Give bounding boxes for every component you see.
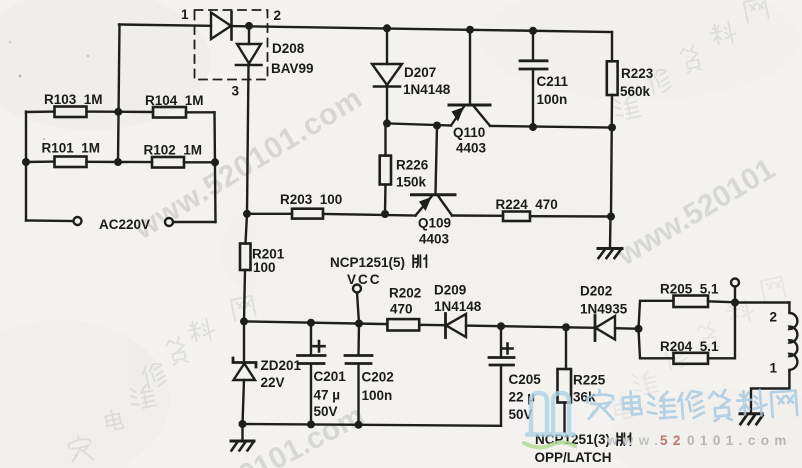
svg-text:1N4148: 1N4148 (403, 82, 451, 97)
svg-text:R104 1M: R104 1M (145, 93, 204, 108)
svg-text:R224 470: R224 470 (496, 197, 558, 212)
capacitor C211 (520, 31, 547, 127)
resistor R202 (387, 319, 419, 330)
svg-text:R204 5.1: R204 5.1 (660, 339, 719, 354)
watermark text 家电维修资料网 (blue brush) (587, 389, 798, 421)
svg-text:D209: D209 (434, 283, 466, 298)
wm F 维修资料网 faint bottom-right (613, 277, 785, 420)
resistor R204 (674, 353, 709, 364)
svg-text:100n: 100n (537, 92, 568, 107)
resistor R102 (152, 157, 184, 168)
svg-text:BAV99: BAV99 (271, 61, 314, 76)
wire R204 right up to output node (708, 303, 735, 359)
resistor R226 (380, 123, 391, 214)
node junction ground rail left (239, 420, 247, 428)
transistor Q109 (PNP 4403) (412, 126, 456, 216)
wire D207 cathode down (386, 87, 388, 124)
svg-text:R202: R202 (389, 286, 421, 301)
wire top rail left segment (119, 25, 211, 26)
capacitor C201 47u electrolytic (298, 323, 326, 425)
svg-text:VCC: VCC (347, 272, 382, 287)
node junction R101 left / left vertical (22, 158, 30, 166)
wire row2 mid (87, 161, 153, 164)
ground (bottom right) (740, 414, 763, 424)
resistor R225 (558, 327, 572, 432)
node junction R102 right (211, 158, 219, 166)
node junction R223/Q110 row (608, 124, 616, 132)
terminal AC220V right (165, 218, 173, 226)
svg-text:50V: 50V (314, 404, 338, 419)
svg-text:150k: 150k (396, 175, 427, 190)
node junction D208 common (pin2 wire) (245, 22, 253, 30)
node junction R203 left (243, 210, 251, 218)
node junction R226 bottom (381, 210, 389, 218)
svg-text:560k: 560k (620, 84, 651, 99)
node junction C201 bottom (307, 420, 315, 428)
diode D209 1N4148 (446, 314, 467, 338)
wire R225 junction to D202 (566, 326, 594, 329)
svg-text:ZD201: ZD201 (261, 358, 302, 373)
node junction output (731, 299, 739, 307)
resistor R104 (153, 107, 186, 118)
node junction Q110 base on rail (466, 26, 474, 34)
svg-text:C201: C201 (314, 369, 347, 384)
wire R202 to D209 (419, 324, 444, 327)
node junction D207 top on rail (383, 24, 391, 32)
svg-text:0101.com: 0101.com (687, 433, 792, 448)
wire left vertical (left AC branch) (25, 112, 27, 221)
wire AC right terminal to vertical (173, 221, 216, 223)
resistor R201 (240, 214, 251, 322)
terminal AC220V left (74, 217, 82, 225)
wire VCC terminal to rail (357, 293, 359, 324)
svg-text:R103 1M: R103 1M (44, 92, 103, 107)
wire split junction up to R205 (639, 301, 674, 329)
resistor R224 (503, 212, 530, 222)
wire row1 mid (87, 110, 154, 113)
wire row D207 to Q110 emitter node (387, 123, 451, 125)
wire row2 right (184, 161, 215, 163)
node junction C201 top (307, 319, 315, 327)
svg-text:4403: 4403 (419, 232, 450, 247)
wm D 维修资料网 diagonal top-right (613, 0, 769, 121)
svg-text:1: 1 (770, 361, 778, 376)
inductor winding (pins 2-1) (789, 303, 797, 372)
terminal VCC (353, 285, 361, 293)
logo book icon (527, 393, 574, 435)
svg-text:C211: C211 (537, 74, 569, 89)
wire R203 right to Q109 emitter (323, 214, 416, 216)
svg-text:D202: D202 (580, 284, 612, 299)
node junction D207/R226/Q110 row (383, 119, 391, 127)
node junction C202 bottom (355, 421, 363, 429)
resistor R103 (55, 107, 87, 118)
svg-text:R203 100: R203 100 (280, 192, 342, 207)
wire output node to coil (735, 301, 789, 303)
svg-text:www.: www. (606, 433, 663, 448)
dashed package outline D208 (195, 10, 268, 80)
wire pin3 vertical down to R203 row (247, 65, 249, 214)
diode D208 (pin1-pin2 half, BAV99) (211, 12, 232, 40)
svg-text:3: 3 (232, 84, 240, 99)
resistor R203 (292, 209, 323, 219)
zener diode ZD201 22V (233, 321, 256, 424)
wire D209 to C205 junction (466, 326, 566, 328)
wire bottom-left horizontal to AC terminal (26, 219, 74, 222)
wire row1 left stub (26, 110, 55, 113)
wire R223 top stub (611, 32, 613, 61)
wire left vertical from top rail to R103/R101 rows (118, 25, 120, 163)
svg-text:1: 1 (181, 7, 189, 22)
svg-text:OPP/LATCH: OPP/LATCH (535, 450, 612, 465)
svg-text:R101 1M: R101 1M (42, 141, 101, 156)
transistor Q110 (PNP 4403) (449, 30, 490, 126)
svg-text:D207: D207 (404, 65, 436, 80)
svg-text:2: 2 (770, 310, 778, 325)
resistor R223 (607, 61, 618, 95)
svg-text:100: 100 (253, 260, 276, 275)
site watermark bottom right (524, 389, 797, 448)
node junction R225 top (562, 323, 570, 331)
resistor R205 (674, 296, 709, 308)
wire R203 left stub (247, 213, 292, 215)
node junction VCC/C202 (355, 320, 363, 328)
wire Q110 collector row to R223 (490, 126, 612, 128)
svg-text:4403: 4403 (456, 141, 487, 156)
wire R205 right to output node (708, 301, 735, 302)
svg-text:C202: C202 (362, 370, 394, 385)
svg-text:AC220V: AC220V (99, 217, 150, 232)
svg-text:470: 470 (390, 302, 413, 317)
wire right vertical (R104/R102 to AC terminal) (215, 112, 216, 222)
svg-text:R205 5.1: R205 5.1 (660, 282, 719, 297)
wire D207 anode stub (386, 28, 388, 64)
svg-text:C205: C205 (509, 372, 542, 387)
node junction R223/R224 (607, 213, 615, 221)
ground (bottom left) (231, 424, 254, 451)
svg-text:1N4935: 1N4935 (580, 302, 628, 317)
diode D208 (vertical half to pin3) (236, 44, 262, 65)
svg-text:100n: 100n (362, 388, 393, 403)
label NCP1251(3)脚 (535, 432, 630, 447)
node junction R103/R104 row (114, 108, 122, 116)
wire terminal stub (734, 287, 736, 303)
node junction C211 bottom (529, 123, 537, 131)
svg-text:R226: R226 (396, 158, 429, 173)
terminal output (731, 279, 739, 287)
svg-text:D208: D208 (272, 41, 305, 56)
logo green swoosh (524, 442, 575, 447)
svg-text:R223: R223 (621, 66, 654, 81)
svg-text:47 µ: 47 µ (314, 388, 341, 403)
svg-text:22V: 22V (261, 375, 285, 390)
wire R223 bottom vertical (611, 95, 612, 217)
svg-text:Q110: Q110 (453, 125, 485, 140)
svg-text:52: 52 (660, 433, 686, 448)
wire R224 right to junction (530, 215, 611, 218)
node junction R205/R204 split (635, 325, 643, 333)
resistor R101 (55, 157, 87, 168)
wire split junction down to R204 (639, 329, 674, 359)
watermark url www.520101.com (dotted red/gray) (606, 433, 792, 448)
wm B 家电维修资料网 diagonal bottom-left (67, 296, 256, 464)
diode D207 1N4148 (372, 64, 402, 87)
node junction R101/R102 row (114, 158, 122, 166)
node junction C211 top on rail (529, 27, 537, 35)
node junction Q110 emitter / Q109 base (433, 122, 441, 130)
diode D202 1N4935 (595, 316, 615, 341)
ground (top right, under R223) (598, 217, 622, 259)
svg-text:NCP1251(5): NCP1251(5) (330, 255, 405, 270)
wire coil bottom to ground (751, 371, 789, 413)
svg-text:2: 2 (274, 8, 282, 23)
node junction VCC rail left end (240, 317, 248, 325)
wire row1 right to corner (186, 111, 215, 113)
node junction C205 top (497, 322, 505, 330)
capacitor C202 100n (345, 324, 372, 426)
wire Q109 collector to R224 (452, 214, 503, 217)
wire D208 common down stub (248, 26, 250, 44)
wire D202 to split junction (615, 327, 639, 330)
wire ground rail (243, 424, 502, 426)
svg-text:Q109: Q109 (418, 216, 451, 231)
wire top rail right segment (232, 26, 613, 32)
svg-text:1N4148: 1N4148 (434, 299, 482, 314)
wire VCC rail segment 1 (244, 321, 387, 324)
capacitor C205 22u electrolytic (489, 326, 514, 426)
svg-text:R225: R225 (573, 373, 606, 388)
svg-text:R102 1M: R102 1M (144, 143, 203, 158)
label NCP1251(5)脚 (330, 255, 426, 270)
wire row2 left stub (26, 160, 55, 163)
